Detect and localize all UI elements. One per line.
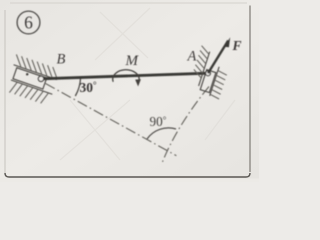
slot lower guide line B <box>11 80 52 94</box>
svg-text:M: M <box>125 53 140 69</box>
slider block A <box>200 70 216 93</box>
force F arrowhead <box>224 37 230 47</box>
support A : inclined slot with slider <box>188 46 233 99</box>
slot left guide line A <box>199 52 210 86</box>
hatching above slot B <box>13 54 60 79</box>
moment arc M <box>113 70 139 82</box>
slider block B <box>13 68 47 89</box>
hatching right of slot A <box>210 71 227 99</box>
moment arrowhead <box>135 79 141 86</box>
pin at B <box>38 76 43 81</box>
svg-text:6: 6 <box>24 13 33 33</box>
slot upper guide line B <box>14 65 57 80</box>
frame right edge <box>249 6 251 173</box>
dash-dot line from B to vertex (30 deg) <box>46 84 177 156</box>
strip below bottom frame edge <box>0 179 259 183</box>
circled figure number 6 <box>17 11 40 34</box>
frame border <box>5 3 250 177</box>
pin at A <box>206 71 211 76</box>
support B : inclined slot with slider <box>4 54 61 105</box>
ghost bleed-through marks <box>60 8 235 160</box>
force F arrow shaft <box>208 41 228 74</box>
rivet dot in slider B <box>26 73 29 76</box>
svg-text:F: F <box>232 38 242 53</box>
frame left edge <box>4 10 6 173</box>
90 degree angle arc at vertex <box>147 128 176 139</box>
svg-text:A: A <box>187 49 197 65</box>
slot right guide line A <box>210 67 219 96</box>
beam rod B to A <box>41 73 208 79</box>
30 degree angle tick <box>75 79 80 97</box>
dash-dot line from A to vertex (60 deg) <box>162 87 210 165</box>
svg-text:B: B <box>57 52 66 68</box>
frame top edge <box>10 2 247 4</box>
page background <box>0 0 259 182</box>
hatching left of slot A <box>192 46 210 78</box>
hatching below slot B <box>9 81 48 104</box>
frame bottom edge <box>5 173 250 177</box>
